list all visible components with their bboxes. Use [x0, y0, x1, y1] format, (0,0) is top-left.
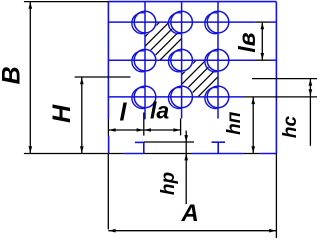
dimension line l and la — [108, 129, 181, 131]
dimension line hp (press channel) — [252, 97, 254, 153]
hole row1 col1 — [134, 11, 156, 33]
row1 black overlay — [255, 21, 269, 23]
extension line top (B) — [24, 1, 109, 3]
column line 1 — [144, 2, 146, 120]
dimension line hc — [309, 79, 311, 146]
hatched cell between holes (2,2)-(3,3) — [150, 60, 254, 97]
dimension line H — [81, 77, 83, 154]
extension below bottom-left corner (A) — [107, 154, 109, 230]
extension line right of la — [180, 118, 182, 135]
svg-text:la: la — [150, 97, 169, 123]
column line 3 — [217, 2, 219, 119]
row2 black overlay — [255, 59, 270, 61]
column line 2 — [181, 2, 183, 119]
plate left edge lower blue segment — [108, 136, 110, 154]
svg-text:hп: hп — [224, 111, 245, 135]
hatched cell between holes (1,1)-(2,2) — [112, 22, 217, 60]
row line 3 — [108, 96, 243, 98]
svg-text:lв: lв — [234, 32, 260, 52]
hole row2 col1 — [134, 49, 156, 71]
plate right edge — [275, 2, 277, 154]
plate bottom edge blue segments — [124, 153, 144, 155]
svg-text:В: В — [0, 66, 26, 84]
hole row2 col2 — [171, 49, 193, 71]
hole row1 col3 — [207, 11, 229, 33]
hole row3 col1 — [134, 86, 156, 108]
hole row2 col3 — [207, 49, 229, 71]
extension line between l and la — [143, 113, 145, 136]
dimension line A — [108, 230, 276, 232]
dimension line lv — [261, 22, 263, 60]
row line 2 — [108, 59, 255, 61]
svg-text:l: l — [120, 99, 128, 127]
section step profile (left channel) — [135, 141, 144, 143]
hole row1 col2 — [171, 11, 193, 33]
hole row3 col3 — [207, 86, 229, 108]
section line y142 black — [144, 141, 194, 143]
svg-text:hр: hр — [158, 172, 179, 195]
svg-text:Н: Н — [48, 104, 76, 123]
plate left edge upper (blue) — [107, 2, 109, 119]
dimension line B — [29, 2, 31, 154]
bottom face line black segments — [24, 153, 124, 155]
extension line H top — [75, 76, 131, 78]
hole row3 col2 — [171, 86, 193, 108]
extension below bottom-right corner (A) — [275, 154, 277, 238]
row line 1 — [108, 21, 255, 23]
channel top extension line y78.6 — [252, 78, 317, 80]
svg-text:А: А — [181, 200, 199, 227]
plate top edge — [108, 1, 276, 3]
svg-text:hс: hс — [280, 115, 301, 138]
row3 black extension — [243, 96, 317, 98]
dimension line hr — [185, 131, 187, 205]
left edge black mid segment — [107, 119, 109, 136]
hole clearances (white) — [133, 10, 157, 34]
section tee profile (right channel) — [212, 141, 226, 143]
